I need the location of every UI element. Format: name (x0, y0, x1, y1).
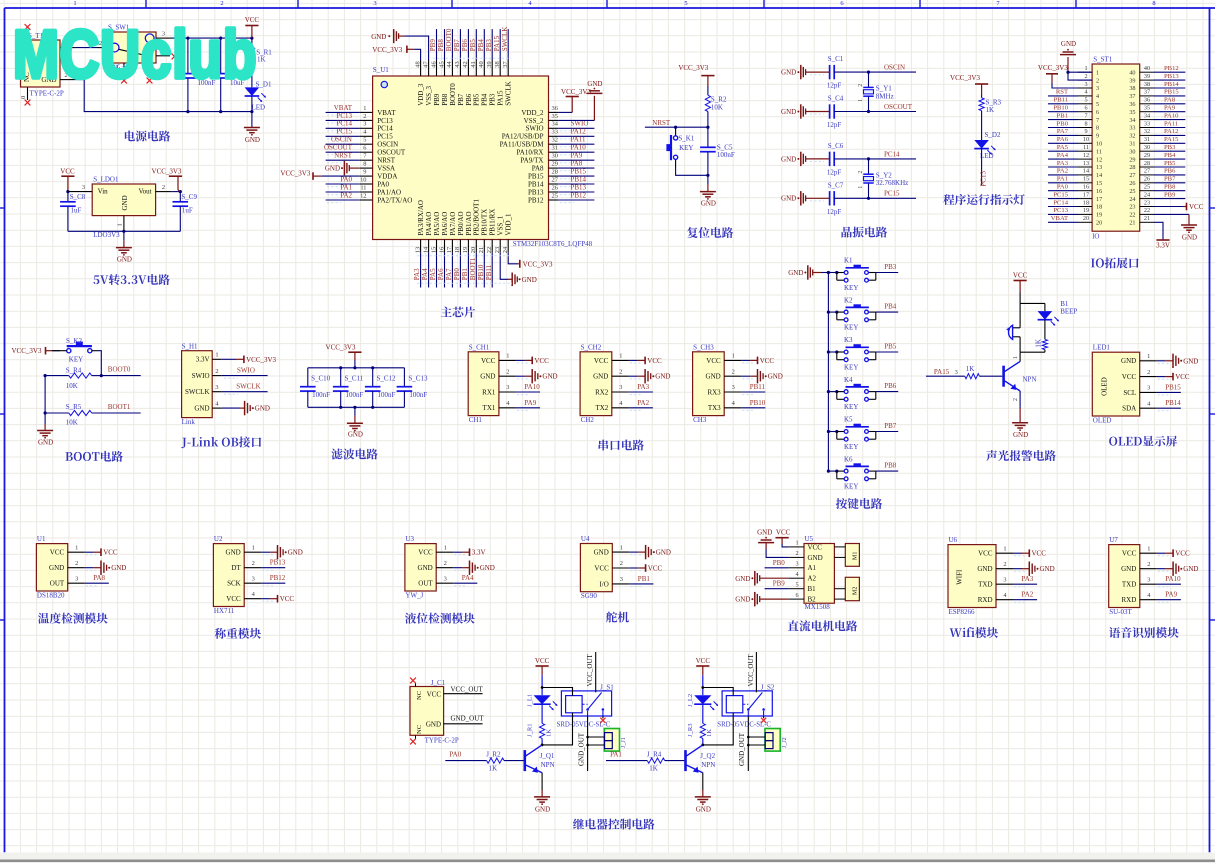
wire net PA9 io-right (1154, 111, 1185, 113)
caption 串口电路 (599, 440, 609, 451)
svg-text:SRD-05VDC-SL-C: SRD-05VDC-SL-C (717, 722, 771, 729)
sheet border left line (4, 8, 6, 852)
svg-text:GND: GND (768, 373, 783, 381)
S_U1 left pin 1 VBAT (360, 111, 373, 113)
caption 声光报警电路 (986, 450, 997, 461)
U7 net PA9 (1157, 599, 1181, 601)
svg-text:TXD: TXD (978, 581, 992, 589)
svg-text:VCC_3V3: VCC_3V3 (152, 167, 182, 175)
svg-text:3: 3 (82, 184, 85, 191)
caption OLED显示屏 (1109, 437, 1117, 446)
svg-text:VDD_2: VDD_2 (521, 109, 544, 117)
U3 pin 3 OUT (436, 582, 453, 584)
caption BOOT电路 (65, 452, 72, 461)
svg-text:U2: U2 (214, 535, 223, 543)
U4 pin 1 GND (612, 551, 629, 553)
transistor NPN alarm (1002, 366, 1005, 387)
svg-text:9: 9 (1096, 133, 1099, 140)
svg-text:VSS_3: VSS_3 (425, 85, 433, 105)
svg-text:VCC: VCC (760, 357, 775, 365)
S_U1 bottom pin 23 VSS_1 (499, 240, 501, 253)
wire to collector J_Q1 (541, 738, 543, 745)
svg-text:1K: 1K (966, 365, 975, 373)
svg-text:GND: GND (194, 405, 209, 413)
svg-text:PA15: PA15 (497, 90, 505, 106)
filter bottom rail (308, 406, 405, 408)
coil wires J_S2 (703, 688, 733, 696)
svg-text:13: 13 (414, 247, 421, 253)
S_CH3 ground (741, 375, 750, 377)
svg-text:PA11: PA11 (571, 136, 587, 144)
resistor S_R5 10K (45, 412, 69, 414)
svg-text:3: 3 (1084, 81, 1087, 88)
wire net BOOT0 top (451, 29, 453, 60)
svg-text:PA0: PA0 (1057, 184, 1069, 191)
svg-text:J_L1: J_L1 (526, 694, 533, 707)
svg-text:1: 1 (619, 353, 622, 360)
LED1 power VCC (1157, 376, 1166, 378)
transistor J_Q1 NPN (523, 750, 526, 771)
svg-text:PA4/AO: PA4/AO (425, 212, 433, 236)
bottom return wire (76, 80, 252, 112)
S_T1 top no-connect stub (27, 29, 29, 40)
svg-text:31: 31 (552, 145, 558, 152)
svg-text:5: 5 (363, 137, 366, 144)
svg-text:PB4: PB4 (884, 303, 897, 311)
resistor S_R4 10K (45, 375, 69, 377)
svg-text:SWCLK: SWCLK (501, 27, 509, 52)
svg-text:GND: GND (788, 269, 803, 277)
wire net PA9 right (558, 159, 594, 161)
svg-text:GND: GND (480, 564, 495, 572)
svg-text:10K: 10K (66, 382, 78, 390)
svg-text:CH3: CH3 (693, 416, 707, 424)
S_U1 pin1 marker (381, 81, 387, 87)
U5 pin 2 GND (788, 556, 804, 558)
wire net BOOT1 bottom (475, 253, 477, 288)
S_U1 bottom pin 14 PA4/AO (428, 240, 430, 253)
svg-text:PC14: PC14 (1053, 199, 1068, 206)
left rail boot (44, 376, 46, 424)
LED1 pin 2 VCC (1140, 376, 1157, 378)
svg-text:CH1: CH1 (469, 416, 483, 424)
svg-text:PB3: PB3 (1164, 144, 1176, 151)
svg-text:3.3V: 3.3V (196, 356, 210, 364)
S_T1 bottom no-connect stub (27, 87, 29, 100)
S_U1 top pin 37 SWCLK (507, 60, 509, 76)
svg-text:TX1: TX1 (483, 404, 496, 412)
svg-text:PA5/AO: PA5/AO (433, 212, 441, 236)
wire net PA1 (326, 191, 360, 193)
wire net PA6 bottom (444, 253, 446, 288)
U7 ground (1157, 568, 1166, 570)
svg-text:27: 27 (552, 176, 559, 183)
svg-text:1: 1 (1013, 356, 1019, 359)
svg-text:PA10/RX: PA10/RX (517, 149, 544, 157)
svg-text:PB14: PB14 (1165, 399, 1181, 407)
svg-text:2: 2 (1084, 73, 1087, 80)
svg-text:6: 6 (363, 145, 366, 152)
svg-text:S_LDO1: S_LDO1 (93, 175, 119, 183)
svg-text:KEY: KEY (69, 356, 83, 364)
S_ST1 left pin 13 (1078, 166, 1092, 168)
S_ST1 left pin 7 (1078, 119, 1092, 121)
svg-text:PB3: PB3 (489, 93, 497, 106)
svg-text:DT: DT (231, 564, 241, 572)
J_C1 top no-connect (415, 683, 417, 687)
svg-text:GND: GND (1121, 565, 1136, 573)
svg-text:21: 21 (1129, 220, 1135, 227)
wire net PB7 io-right (1154, 182, 1185, 184)
svg-text:13: 13 (1096, 164, 1102, 171)
svg-text:10K: 10K (66, 419, 78, 427)
wire net PB3 io-right (1154, 150, 1185, 152)
svg-text:1: 1 (1096, 69, 1099, 76)
svg-text:PB14: PB14 (571, 175, 587, 183)
module U5 MX1508 body (804, 544, 834, 604)
svg-text:J_Q1: J_Q1 (540, 752, 555, 760)
svg-text:I/O: I/O (599, 580, 608, 588)
svg-text:PC14: PC14 (884, 150, 900, 158)
svg-text:30: 30 (552, 153, 558, 160)
svg-text:44: 44 (446, 61, 453, 68)
svg-text:PA12: PA12 (1164, 128, 1178, 135)
S_U1 left pin 11 PA1/AO (360, 191, 373, 193)
module U7 body (1109, 545, 1140, 608)
svg-text:2: 2 (162, 184, 165, 191)
svg-text:2: 2 (444, 560, 447, 567)
svg-text:S_Y1: S_Y1 (876, 85, 892, 93)
wire net PB15 io-right (1154, 95, 1185, 97)
svg-text:10: 10 (1083, 136, 1089, 143)
svg-text:PB3: PB3 (485, 39, 493, 52)
svg-text:PB11: PB11 (485, 264, 493, 280)
wire net PB0 bottom (459, 253, 461, 288)
resistor J_R1 1K (541, 704, 543, 723)
svg-text:PB13: PB13 (1164, 73, 1179, 80)
svg-text:12pF: 12pF (827, 208, 842, 216)
S_ST1 left pin 17 (1078, 198, 1092, 200)
S_T1 pin VCC (1) (60, 47, 76, 49)
GND bar port bottom of S_U1 (pin 23) (500, 253, 508, 280)
svg-text:45: 45 (438, 61, 445, 67)
S_SW1 pin 1 no-connect (156, 55, 170, 57)
button K4 KEY (828, 391, 836, 393)
module S_CH2 body (580, 352, 612, 416)
svg-text:PA10: PA10 (1165, 575, 1181, 583)
svg-text:S_K2: S_K2 (66, 337, 82, 345)
capacitor 100nF (187, 38, 189, 74)
S_ST1 left pin 12 (1078, 158, 1092, 160)
svg-text:5: 5 (1084, 97, 1087, 104)
S_U1 right pin 27 PB14 (549, 183, 559, 185)
relay J_S1 NC contact no-connect (602, 716, 604, 718)
svg-text:PA2: PA2 (340, 191, 352, 199)
svg-text:BOOT0: BOOT0 (445, 28, 453, 51)
S_SW1 contacts and lever (110, 43, 119, 52)
svg-text:PB7: PB7 (453, 39, 461, 52)
U2 power VCC (261, 598, 270, 600)
wire net PB15 right (558, 175, 594, 177)
wire button bottom to cap bottom (675, 160, 677, 168)
U6 pin 4 RXD (996, 599, 1013, 601)
svg-text:KEY: KEY (844, 483, 858, 491)
svg-text:1: 1 (506, 353, 509, 360)
svg-text:VCC: VCC (706, 357, 721, 365)
button K5 KEY (828, 431, 836, 433)
resistor J_R3 1K (702, 704, 704, 723)
svg-text:18: 18 (454, 247, 461, 253)
svg-text:1: 1 (215, 352, 218, 359)
svg-text:PA3/RX/AO: PA3/RX/AO (417, 200, 425, 236)
svg-text:1K: 1K (1034, 339, 1042, 348)
U1 ground (85, 567, 94, 569)
S_ST1 left pin 11 (1078, 150, 1092, 152)
svg-text:NC: NC (416, 724, 423, 734)
S_U1 left pin 5 OSCIN (360, 143, 373, 145)
svg-text:GND: GND (522, 276, 537, 284)
svg-text:3: 3 (620, 576, 623, 583)
svg-text:PB5: PB5 (473, 93, 481, 106)
svg-text:2: 2 (252, 560, 255, 567)
svg-text:36: 36 (1144, 97, 1150, 104)
compile marker band bottom pins (417, 255, 512, 257)
wire K2 to BOOT0 junction (92, 350, 98, 352)
S_U1 top pin 40 PB4 (483, 60, 485, 76)
svg-text:11: 11 (1096, 148, 1102, 155)
svg-text:1: 1 (795, 540, 798, 547)
caption 复位电路 (687, 227, 698, 238)
svg-text:2: 2 (858, 84, 864, 87)
svg-text:2: 2 (363, 113, 366, 120)
S_ST1 right pin 29 (1140, 158, 1154, 160)
svg-text:17: 17 (1096, 196, 1102, 203)
svg-text:12: 12 (1083, 152, 1089, 159)
svg-text:PA12: PA12 (571, 128, 587, 136)
svg-text:20: 20 (1083, 215, 1089, 222)
svg-text:4: 4 (1096, 93, 1099, 100)
wire net PB5 top (475, 29, 477, 60)
svg-text:VCC_OUT: VCC_OUT (747, 653, 755, 686)
wire net SWIO right (558, 127, 594, 129)
svg-text:PC13: PC13 (980, 171, 988, 187)
wire net PA4 bottom (428, 253, 430, 288)
svg-text:27: 27 (1129, 172, 1135, 179)
button K3 KEY (828, 351, 836, 353)
S_ST1 right pin 28 (1140, 166, 1154, 168)
svg-text:PA7: PA7 (1057, 128, 1069, 135)
S_U1 left pin 3 PC14 (360, 127, 373, 129)
svg-text:U1: U1 (37, 535, 46, 543)
module U4 body (580, 544, 612, 592)
wire net PA15 top (499, 29, 501, 60)
svg-text:11: 11 (360, 184, 366, 191)
svg-text:VBAT: VBAT (377, 109, 396, 117)
svg-text:8: 8 (363, 161, 366, 168)
U7 power VCC (1157, 552, 1166, 554)
svg-text:3: 3 (373, 0, 376, 7)
wire net PB5 io-right (1154, 166, 1185, 168)
U3 ground (453, 567, 462, 569)
svg-text:PA10: PA10 (571, 144, 587, 152)
svg-text:MX1508: MX1508 (805, 603, 831, 611)
net NRST wire (645, 126, 708, 128)
LED S_D1 (245, 87, 260, 96)
svg-text:23: 23 (1144, 199, 1150, 206)
3.3V port at S_ST1 pin 21 (1154, 222, 1163, 240)
S_CH1 pin 2 GND (499, 375, 516, 377)
button S_K2 KEY (67, 349, 71, 353)
S_CH3 pin 2 GND (724, 375, 741, 377)
svg-text:NPN: NPN (1023, 375, 1037, 383)
U2 pin 4 VCC (244, 598, 261, 600)
U4 net PB1 (629, 583, 653, 585)
VCC_3V3 port right of S_U1 (pin 36) (558, 111, 572, 113)
S_ST1 right pin 37 (1140, 95, 1154, 97)
svg-text:3.3V: 3.3V (472, 549, 486, 557)
svg-text:PA15: PA15 (934, 368, 950, 376)
svg-text:PA3: PA3 (1022, 575, 1034, 583)
svg-text:PB6: PB6 (1164, 168, 1176, 175)
wire net PA12 io-right (1154, 134, 1185, 136)
svg-text:34: 34 (1144, 112, 1150, 119)
S_CH1 net PA10 (516, 391, 540, 393)
svg-text:35: 35 (552, 113, 558, 120)
svg-text:3: 3 (252, 575, 255, 582)
S_ST1 left pin 18 (1078, 206, 1092, 208)
wire filter to ground (354, 407, 356, 415)
S_U1 top pin 41 PB5 (475, 60, 477, 76)
svg-text:21: 21 (478, 247, 485, 253)
right zone ticks (1210, 207, 1215, 209)
svg-text:2: 2 (619, 368, 622, 375)
svg-text:PA1: PA1 (340, 183, 352, 191)
svg-text:KEY: KEY (844, 403, 858, 411)
wire net PB1 io-left (1048, 119, 1078, 121)
U3 net PA4 (453, 582, 477, 584)
svg-text:GND: GND (977, 565, 992, 573)
svg-text:PA8: PA8 (93, 574, 105, 582)
S_ST1 right pin 21 (1140, 221, 1154, 223)
LDO bottom rail (68, 230, 180, 232)
svg-text:29: 29 (1129, 156, 1135, 163)
svg-text:1uF: 1uF (71, 207, 82, 215)
svg-text:PB4: PB4 (1164, 152, 1176, 159)
relay J_S2 SRD-05VDC-SL-C (722, 691, 772, 716)
svg-text:PB14: PB14 (1164, 81, 1179, 88)
main chip S_U1 body (373, 76, 549, 240)
U6 ground (1013, 568, 1022, 570)
svg-text:PB3: PB3 (884, 263, 897, 271)
resistor 1K vertical alarm (1044, 320, 1046, 340)
svg-text:S_C8: S_C8 (70, 193, 86, 201)
svg-text:19: 19 (1096, 212, 1102, 219)
S_U1 left pin 6 OSCOUT (360, 151, 373, 153)
U6 net PA3 (1013, 583, 1037, 585)
top zone tick marks (145, 0, 147, 8)
S_CH2 pin 4 TX2 (612, 407, 629, 409)
svg-text:2: 2 (795, 550, 798, 557)
svg-text:40: 40 (1144, 65, 1150, 72)
wire net PA4 io-left (1048, 158, 1078, 160)
relay common VCC_OUT wire (595, 652, 597, 692)
svg-text:31: 31 (1144, 136, 1150, 143)
svg-text:PB14: PB14 (528, 180, 544, 188)
svg-text:PA7: PA7 (445, 268, 453, 280)
VCC_3V3 port at S_H1 pin1 (222, 358, 236, 360)
svg-text:VCC: VCC (1189, 203, 1204, 211)
svg-text:20: 20 (470, 247, 477, 253)
svg-text:GND: GND (535, 806, 550, 814)
wire net PB0 io-left (1048, 127, 1078, 129)
svg-text:2: 2 (1003, 561, 1006, 568)
relay J_S1 SRD-05VDC-SL-C (561, 691, 611, 716)
svg-text:32: 32 (1144, 128, 1150, 135)
svg-text:3: 3 (506, 384, 509, 391)
U7 pin 4 RXD (1140, 599, 1157, 601)
svg-text:GND: GND (1013, 431, 1028, 439)
svg-text:S_D2: S_D2 (985, 131, 1001, 139)
button S_K1 KEY (vertical) (674, 136, 678, 140)
svg-text:3: 3 (444, 575, 447, 582)
wire net PA3 bottom (420, 253, 422, 288)
svg-text:3: 3 (1147, 576, 1150, 583)
svg-text:PC14: PC14 (336, 120, 352, 128)
S_U1 left pin 4 PC15 (360, 135, 373, 137)
S_ST1 right pin 38 (1140, 87, 1154, 89)
svg-text:PA4: PA4 (421, 268, 429, 280)
ground GND power circuit (244, 127, 260, 129)
svg-text:2: 2 (858, 171, 864, 174)
S_U1 bottom pin 20 PB2/BOOT1 (475, 240, 477, 253)
S_ST1 right pin 32 (1140, 134, 1154, 136)
svg-text:14: 14 (1083, 168, 1089, 175)
resistor S_R3 1K (979, 98, 984, 111)
caption 程序运行指示灯 (943, 194, 954, 205)
LED1 pin 1 GND (1140, 360, 1157, 362)
svg-text:21: 21 (1144, 215, 1150, 222)
svg-text:NRST: NRST (652, 119, 671, 127)
S_U1 left pin 9 VDDA (360, 175, 373, 177)
svg-text:28: 28 (552, 169, 558, 176)
svg-text:100nF: 100nF (717, 151, 735, 159)
svg-text:VDD_3: VDD_3 (417, 83, 425, 106)
svg-text:GND: GND (594, 549, 609, 557)
svg-text:14: 14 (422, 246, 429, 253)
svg-text:VCC_3V3: VCC_3V3 (246, 356, 276, 364)
connector J_C1 TYPE-C-2P body (410, 687, 444, 736)
svg-text:CH2: CH2 (581, 416, 595, 424)
svg-text:S_C7: S_C7 (828, 181, 844, 189)
S_LDO1 GND pin 1 (123, 216, 125, 232)
U5 GND at pin A2 (760, 577, 788, 579)
svg-text:PA4: PA4 (462, 574, 474, 582)
svg-text:2: 2 (1147, 369, 1150, 376)
svg-text:VCC_3V3: VCC_3V3 (280, 170, 310, 178)
svg-text:38: 38 (1129, 85, 1135, 92)
svg-text:24: 24 (1144, 191, 1150, 198)
svg-text:23: 23 (1129, 204, 1135, 211)
svg-text:5: 5 (684, 0, 687, 7)
wire net PB6 io-right (1154, 174, 1185, 176)
svg-text:GND: GND (226, 549, 241, 557)
svg-text:GND: GND (701, 200, 716, 208)
wire pin2 to cap C9 (171, 191, 180, 193)
U5 net PB9 (B1) (765, 588, 789, 590)
svg-text:PB15: PB15 (571, 168, 587, 176)
svg-text:SG90: SG90 (581, 592, 597, 600)
svg-text:OSCOUT: OSCOUT (324, 144, 353, 152)
